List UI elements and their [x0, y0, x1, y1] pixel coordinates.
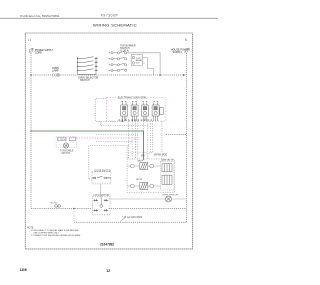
svg-text:12: 12 — [106, 269, 110, 273]
fan wire y134 — [96, 134, 138, 136]
wire door feed solid — [89, 146, 127, 180]
arrow on EOC lower-left wire — [122, 120, 124, 122]
wire EOC right dashed — [166, 134, 187, 136]
wire row1 to N drop — [127, 53, 160, 75]
svg-text:21647882: 21647882 — [100, 242, 114, 246]
node junction lock wire — [73, 208, 75, 210]
svg-text:NOTE: NOTE — [27, 227, 34, 229]
svg-text:F97300P: F97300P — [101, 14, 119, 18]
svg-text:SUPPLY: SUPPLY — [173, 51, 183, 54]
gas valve coil top — [162, 164, 172, 172]
svg-text:MOTOR: MOTOR — [62, 153, 71, 155]
top burner switch contacts — [108, 51, 126, 71]
oven ignitor — [166, 196, 172, 202]
electronic oven control label — [117, 96, 140, 99]
fan verticals EOC to valves — [129, 121, 162, 161]
motor connector left — [58, 137, 67, 140]
svg-text:L1: L1 — [28, 38, 32, 42]
door switch contacts — [92, 176, 111, 179]
ground wire brace — [121, 218, 126, 222]
connector pin arrows row — [118, 119, 152, 121]
svg-text:* NC NO: * NC NO — [49, 202, 58, 204]
svg-text:OVEN IGNITOR: OVEN IGNITOR — [162, 194, 178, 196]
header rule — [0, 17, 218, 19]
bake valve row — [127, 163, 160, 170]
motor connector right — [70, 137, 76, 140]
svg-text:SPARK MOD: SPARK MOD — [154, 153, 168, 156]
wire lock dashed y=208.5 left — [31, 208, 92, 210]
arrow into N wire — [183, 74, 186, 76]
svg-text:CORD: CORD — [35, 53, 42, 55]
relay K2 — [131, 102, 138, 121]
svg-text:ELECTRONIC OVEN CTRL: ELECTRONIC OVEN CTRL — [118, 97, 147, 99]
svg-text:* 18 GA GRN WIRE: * 18 GA GRN WIRE — [122, 216, 143, 219]
svg-text:VLV: VLV — [136, 63, 141, 65]
node junction green/L1 — [30, 130, 31, 131]
fan wire green — [31, 131, 144, 160]
broil valve row — [127, 183, 160, 190]
spark module top edge — [128, 152, 153, 154]
wire valve out bottom — [142, 63, 153, 75]
svg-text:SWITCH: SWITCH — [80, 79, 90, 82]
L1 supply terminal — [29, 48, 33, 53]
wire door switch down — [100, 184, 102, 197]
wire ground drop — [73, 209, 75, 223]
gas valve assembly box — [127, 159, 174, 193]
relay K1 — [121, 102, 128, 121]
lock motor contacts — [94, 197, 109, 212]
svg-text:BROIL: BROIL — [136, 179, 143, 181]
wire valve out top — [142, 58, 153, 69]
svg-text:WIRING SCHEMATIC: WIRING SCHEMATIC — [93, 23, 137, 28]
electronic oven control box — [106, 98, 165, 122]
relay K4 — [152, 102, 163, 121]
oven selector switch — [78, 57, 97, 75]
turntable motor — [63, 143, 68, 148]
svg-text:LAMP: LAMP — [52, 70, 59, 73]
svg-text:SM: SM — [141, 156, 145, 158]
main dashed wire y=75 — [31, 74, 183, 76]
turntable motor assembly box — [56, 136, 76, 147]
svg-text:BAKE: BAKE — [138, 159, 144, 162]
wire L1 vertical — [30, 53, 32, 209]
wire stub into EOC left — [96, 98, 122, 121]
svg-text:1306: 1306 — [20, 268, 27, 272]
chassis dashed boundary — [25, 33, 192, 249]
fan wire y125 — [101, 121, 148, 125]
svg-text:Publication No: 5995A70861: Publication No: 5995A70861 — [20, 14, 59, 18]
wire ignitor row — [109, 198, 187, 200]
motor wire magenta — [76, 138, 135, 159]
fan wire y141 — [96, 141, 132, 143]
wire lock dashed y=208.5 right — [109, 208, 187, 210]
N supply terminal — [184, 48, 188, 53]
svg-text:2 CONNECTORS SHOWN AS VIEWED: 2 CONNECTORS SHOWN AS VIEWED FROM WIRE — [31, 234, 81, 237]
node junction at main wire — [159, 74, 161, 76]
door switch box — [92, 172, 111, 184]
gas valve coil bottom — [162, 175, 172, 184]
oven lamp connector — [52, 73, 60, 76]
door latch switch — [55, 205, 61, 208]
relay K3 — [142, 102, 149, 121]
svg-text:1 TM 50: 1 TM 50 — [58, 139, 66, 141]
gas valve sub box — [160, 161, 174, 190]
wire N vertical — [185, 53, 187, 222]
node junction L1/main — [30, 74, 32, 76]
burner valve box — [131, 55, 142, 66]
lock motor box — [92, 197, 110, 215]
